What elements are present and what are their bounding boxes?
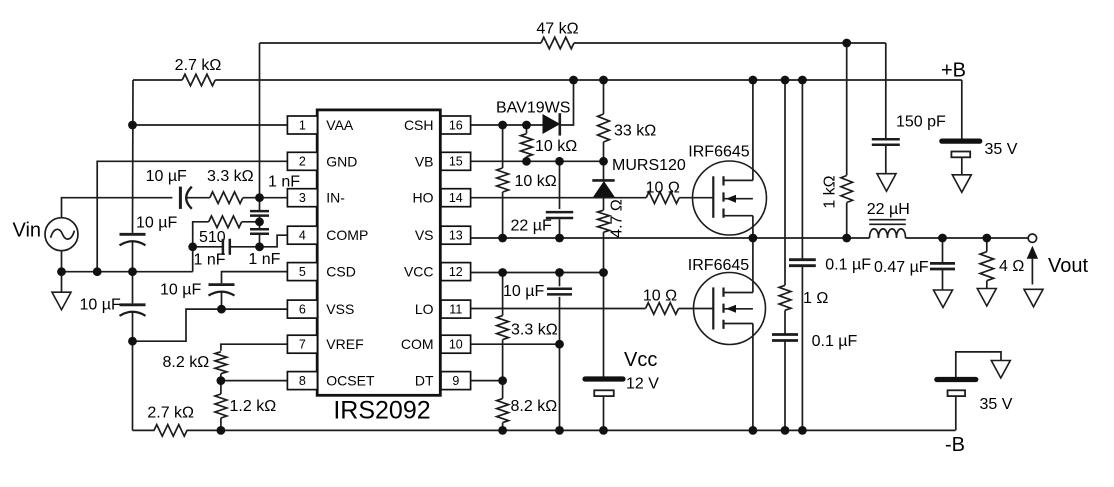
pin 16 CSH xyxy=(441,116,471,134)
svg-text:VCC: VCC xyxy=(404,264,434,280)
junction (61.5,271.7) xyxy=(57,267,66,276)
wire pin7 VREF xyxy=(221,344,288,351)
svg-text:22 µH: 22 µH xyxy=(867,201,910,218)
inductor 22 uH output xyxy=(869,219,906,221)
junction (802.4,80) xyxy=(798,76,807,85)
junction (785,430.4) xyxy=(781,426,790,435)
wire top feedback bus y=43 xyxy=(260,42,542,44)
resistor 3.3 kOhm input xyxy=(210,192,243,204)
Vout arrow xyxy=(1031,255,1033,285)
resistor 10 Ohm HO gate xyxy=(646,192,679,204)
resistor 1 kOhm feedback xyxy=(841,176,853,203)
ground symbol +B battery xyxy=(961,157,963,175)
junction (846.7,43) xyxy=(842,39,851,48)
svg-text:VS: VS xyxy=(415,227,434,243)
wire -B battery to bottom bus xyxy=(955,396,957,430)
wire COMP cap to pin4 xyxy=(230,235,288,247)
svg-text:33 kΩ: 33 kΩ xyxy=(614,123,656,140)
pin 1 VAA xyxy=(287,116,317,134)
wire Vin bottom to gnd bus xyxy=(61,251,63,272)
junction (502.6,125) xyxy=(498,121,507,130)
svg-text:VSS: VSS xyxy=(326,301,354,317)
wire gate resistor to top FET gate xyxy=(679,197,713,199)
wire pin11 LO to gate resistor xyxy=(471,308,646,310)
wire 10k CSH-VB column xyxy=(526,125,528,134)
junction (259.5,221.8) xyxy=(255,217,264,226)
svg-text:9: 9 xyxy=(452,374,459,388)
resistor 47 kOhm feedback xyxy=(541,37,574,49)
svg-text:4: 4 xyxy=(299,229,306,243)
junction (97.2,271.7) xyxy=(93,267,102,276)
svg-text:10 Ω: 10 Ω xyxy=(646,179,680,196)
resistor 510 Ohm xyxy=(242,221,260,223)
svg-text:HO: HO xyxy=(413,190,434,206)
transistor Q1 IRF6645 high side xyxy=(693,161,767,235)
pin 8 OCSET xyxy=(287,372,317,390)
svg-text:2: 2 xyxy=(299,155,306,169)
svg-text:10 Ω: 10 Ω xyxy=(643,288,677,305)
ground symbol 4 Ohm xyxy=(986,281,988,289)
svg-text:CSD: CSD xyxy=(326,264,356,280)
junction (559.5,430.4) xyxy=(555,426,564,435)
junction (559.5,161.3) xyxy=(555,157,564,166)
wire xyxy=(259,198,261,211)
wire bottom bus -B xyxy=(133,429,155,431)
junction (502.6,380.6) xyxy=(498,376,507,385)
wire snubber column 1 Ohm + 0.1 uF xyxy=(784,80,786,285)
junction (559.5,272.5) xyxy=(555,268,564,277)
wire +B rail y=80 left segment (VAA) xyxy=(133,79,182,81)
wire Q1 drain to +B rail xyxy=(752,80,754,180)
wire diode anode to 4.7 Ohm xyxy=(603,197,605,210)
svg-text:7: 7 xyxy=(299,338,306,352)
junction (220.9,430.4) xyxy=(217,426,226,435)
wire VAA cap to gnd bus xyxy=(132,241,134,270)
wire +B rail y=80 xyxy=(215,79,962,81)
svg-text:3.3 kΩ: 3.3 kΩ xyxy=(207,168,254,185)
capacitor 10 uF VAA decoupling xyxy=(120,233,146,236)
svg-text:COMP: COMP xyxy=(326,227,368,243)
svg-text:10 kΩ: 10 kΩ xyxy=(535,138,577,155)
svg-text:11: 11 xyxy=(449,303,462,317)
wire Q2 drain to SW node xyxy=(752,238,754,293)
junction (802.4,430.4) xyxy=(798,426,807,435)
svg-text:1 nF: 1 nF xyxy=(194,252,226,269)
svg-text:CSH: CSH xyxy=(404,117,434,133)
svg-text:12 V: 12 V xyxy=(626,376,659,393)
svg-text:VAA: VAA xyxy=(326,117,354,133)
wire battery to bottom bus xyxy=(603,396,605,430)
junction (603.5,430.4) xyxy=(599,426,608,435)
capacitor 0.1 uF decoupling xyxy=(789,258,816,261)
svg-text:1 kΩ: 1 kΩ xyxy=(822,175,839,208)
pin 11 LO xyxy=(441,300,471,318)
wire gnd-bus to VSS jog xyxy=(132,273,134,303)
junction (220.9,380.6) xyxy=(217,376,226,385)
junction (785,80) xyxy=(781,76,790,85)
wire gnd bus up to COMP node xyxy=(192,247,194,272)
wire 33k column xyxy=(603,80,605,114)
wire Vin top to IN- row xyxy=(62,198,173,218)
svg-text:COM: COM xyxy=(401,336,434,352)
svg-text:4.7 Ω: 4.7 Ω xyxy=(609,199,626,238)
junction (502.6,238) xyxy=(498,234,507,243)
pin 3 IN- xyxy=(287,189,317,207)
svg-text:35 V: 35 V xyxy=(985,141,1018,158)
svg-text:8: 8 xyxy=(299,374,306,388)
svg-text:IRF6645: IRF6645 xyxy=(688,144,749,161)
junction (846.7,238) xyxy=(842,234,851,243)
svg-text:10 µF: 10 µF xyxy=(136,215,177,232)
svg-text:3: 3 xyxy=(299,191,306,205)
svg-text:1.2 kΩ: 1.2 kΩ xyxy=(230,398,277,415)
resistor 33 kOhm xyxy=(598,114,610,142)
resistor 4.7 Ohm bootstrap xyxy=(598,210,610,232)
junction (132.5,271.7) xyxy=(128,267,137,276)
svg-text:-B: -B xyxy=(945,434,965,456)
wire gnd bus xyxy=(62,271,193,273)
pin 9 DT xyxy=(441,372,471,390)
node Vout terminal xyxy=(1028,234,1036,242)
junction (603.5,272.5) xyxy=(599,268,608,277)
wire pin15 VB xyxy=(471,160,604,162)
resistor 1 Ohm snubber xyxy=(779,285,791,310)
svg-text:Vout: Vout xyxy=(1048,255,1088,277)
resistor 10 kOhm CSH to VB xyxy=(521,134,533,157)
svg-text:8.2 kΩ: 8.2 kΩ xyxy=(511,398,558,415)
wire VAA column left x=132.5 xyxy=(132,80,135,233)
svg-text:Vin: Vin xyxy=(13,220,42,242)
svg-text:47 kΩ: 47 kΩ xyxy=(536,21,578,38)
svg-text:IRF6645: IRF6645 xyxy=(688,257,749,274)
op-amp U1 IRS2092 body xyxy=(317,110,440,395)
junction (986.8,238) xyxy=(982,234,991,243)
svg-text:10 µF: 10 µF xyxy=(503,283,544,300)
svg-text:VB: VB xyxy=(415,153,434,169)
wire 3.3k dead-time column xyxy=(502,273,504,316)
capacitor 10 uF VSS decoupling xyxy=(120,303,146,306)
junction (502.6,272.5) xyxy=(498,268,507,277)
ground symbol 150 pF xyxy=(885,145,887,174)
junction (752.9,80) xyxy=(749,76,758,85)
svg-text:10 µF: 10 µF xyxy=(80,297,121,314)
wire Vcc battery column xyxy=(603,273,605,377)
junction (259.5,197.7) xyxy=(255,193,264,202)
battery -B 35 V xyxy=(956,352,1001,377)
svg-text:LO: LO xyxy=(415,301,434,317)
capacitor 10 uF input coupling xyxy=(179,187,182,209)
svg-text:6: 6 xyxy=(299,303,306,317)
capacitor 150 pF feedback xyxy=(872,138,900,141)
svg-text:14: 14 xyxy=(449,191,463,205)
wire pin9 DT xyxy=(471,380,503,382)
junction (603.5,80) xyxy=(599,76,608,85)
wire pin5 CSD xyxy=(222,272,288,284)
resistor 10 Ohm LO gate xyxy=(646,303,679,315)
wire pin6 VSS jog xyxy=(133,309,288,341)
svg-text:IN-: IN- xyxy=(326,190,345,206)
pin 6 VSS xyxy=(287,300,317,318)
wire 10k CSH-VS column xyxy=(502,125,504,168)
junction (259.5,246.8) xyxy=(255,242,264,251)
pin 4 COMP xyxy=(287,226,317,244)
wire pin16 CSH xyxy=(471,124,544,126)
resistor 3.3 kOhm dead-time xyxy=(497,316,509,340)
junction (526.5,125) xyxy=(522,121,531,130)
svg-text:12: 12 xyxy=(449,265,463,279)
wire pin8 OCSET xyxy=(221,380,288,382)
wire 1 kOhm feedback column xyxy=(846,43,848,175)
svg-text:VREF: VREF xyxy=(326,336,363,352)
resistor 2.7 kOhm (VAA from +B) xyxy=(182,74,215,86)
junction (132.5,341.2) xyxy=(128,337,137,346)
resistor 1.2 kOhm OCSET xyxy=(220,381,222,394)
wire pin2 GND to gnd bus xyxy=(97,161,287,271)
wire decoupling column 0.1 uF xyxy=(801,80,803,259)
diode BAV19WS xyxy=(543,115,559,133)
svg-text:150 pF: 150 pF xyxy=(896,114,946,131)
wire gate resistor to bottom FET gate xyxy=(679,308,714,310)
junction (221.5,309.1) xyxy=(217,305,226,314)
capacitor 0.47 uF output filter xyxy=(942,238,944,263)
wire 22uF column VB to VS xyxy=(559,161,561,209)
resistor 8.2 kOhm dead-time xyxy=(502,381,504,399)
capacitor 0.1 uF snubber xyxy=(772,333,798,336)
wire pin1 VAA xyxy=(133,124,288,126)
ground symbol 0.47 uF xyxy=(942,269,944,290)
resistor 10 kOhm CSH to VS xyxy=(497,168,509,192)
svg-text:2.7 kΩ: 2.7 kΩ xyxy=(175,57,222,74)
svg-text:IRS2092: IRS2092 xyxy=(333,397,430,425)
capacitor 1 nF (IN- to comp node) xyxy=(250,210,269,213)
svg-text:0.1 µF: 0.1 µF xyxy=(825,257,871,274)
svg-text:OCSET: OCSET xyxy=(326,373,375,389)
wire pin12 VCC xyxy=(471,272,604,274)
wire output row xyxy=(906,237,1029,239)
wire feedback vertical x=259.5 to IN- xyxy=(259,43,261,198)
svg-text:1 Ω: 1 Ω xyxy=(803,290,828,307)
junction (573.5,80) xyxy=(569,76,578,85)
wire 150 pF column xyxy=(885,43,887,138)
wire cap to 3.3k xyxy=(186,197,210,199)
pin 14 HO xyxy=(441,189,471,207)
node Vin source xyxy=(45,218,78,251)
svg-text:35 V: 35 V xyxy=(980,396,1013,413)
svg-text:0.1 µF: 0.1 µF xyxy=(812,333,858,350)
svg-text:0.47 µF: 0.47 µF xyxy=(874,259,929,276)
capacitor 10 uF VCC decoupling xyxy=(559,273,561,287)
pin 15 VB xyxy=(441,152,471,170)
wire +B to battery xyxy=(961,80,963,139)
junction (559.5,344.2) xyxy=(555,340,564,349)
svg-text:10 kΩ: 10 kΩ xyxy=(515,173,557,190)
wire VSS cap down to bottom bus xyxy=(132,312,134,431)
capacitor 1 nF (mid node to COMP) xyxy=(250,228,269,231)
svg-text:10 µF: 10 µF xyxy=(146,168,187,185)
svg-text:10 µF: 10 µF xyxy=(160,282,201,299)
wire CSD cap to VSS wire xyxy=(221,292,223,310)
capacitor 1 nF COMP horizontal xyxy=(193,246,223,248)
svg-text:5: 5 xyxy=(299,265,306,279)
junction (752.9,430.4) xyxy=(749,426,758,435)
junction (192.7,246.8) xyxy=(188,242,197,251)
wire diode cathode up to +B rail xyxy=(560,80,574,125)
wire 3.3k to pin3 IN- xyxy=(243,197,288,199)
svg-text:2.7 kΩ: 2.7 kΩ xyxy=(147,405,194,422)
ground symbol Vout xyxy=(1024,289,1043,307)
wire pin10 COM xyxy=(471,343,560,345)
pin 13 VS xyxy=(441,226,471,244)
svg-text:DT: DT xyxy=(415,373,434,389)
junction (132.5,125) xyxy=(128,121,137,130)
resistor 2.7 kOhm bottom xyxy=(154,425,187,437)
capacitor 22 uF bootstrap xyxy=(546,211,573,214)
pin 12 VCC xyxy=(441,263,471,281)
battery +B 35 V xyxy=(942,139,980,144)
resistor 8.2 kOhm VREF xyxy=(215,352,227,374)
wire to OCSET xyxy=(220,374,222,381)
capacitor 10 uF CSD xyxy=(209,283,235,286)
wire Q2 source to bottom bus xyxy=(752,324,754,431)
resistor 4 Ohm load xyxy=(986,238,988,252)
svg-text:BAV19WS: BAV19WS xyxy=(496,100,570,117)
wire xyxy=(259,222,261,229)
pin 5 CSD xyxy=(287,263,317,281)
junction (526.5,161.3) xyxy=(522,157,531,166)
transistor Q2 IRF6645 low side xyxy=(694,273,766,345)
svg-text:1 nF: 1 nF xyxy=(248,251,280,268)
junction (502.6,430.4) xyxy=(498,426,507,435)
svg-text:3.3 kΩ: 3.3 kΩ xyxy=(511,322,558,339)
junction (603.5,161.3) xyxy=(599,157,608,166)
svg-text:16: 16 xyxy=(449,118,463,132)
svg-text:Vcc: Vcc xyxy=(624,349,657,371)
ground symbol Vin xyxy=(61,272,63,293)
wire pin13 VS row xyxy=(471,237,870,239)
svg-text:1: 1 xyxy=(299,118,306,132)
svg-text:22 µF: 22 µF xyxy=(511,218,552,235)
svg-text:+B: +B xyxy=(941,60,966,82)
svg-text:15: 15 xyxy=(449,155,463,169)
junction (752.9,238) xyxy=(749,234,758,243)
pin 7 VREF xyxy=(287,335,317,353)
wire Q1 source to SW node xyxy=(752,216,754,238)
pin 10 COM xyxy=(441,335,471,353)
junction (942.5,238) xyxy=(938,234,947,243)
wire pin14 HO to gate resistor xyxy=(471,197,647,199)
diode MURS120 bootstrap xyxy=(603,161,605,180)
junction (559.5,238) xyxy=(555,234,564,243)
svg-text:MURS120: MURS120 xyxy=(612,157,686,174)
ground symbol -B battery xyxy=(991,361,1010,379)
svg-text:13: 13 xyxy=(449,229,463,243)
svg-text:10: 10 xyxy=(449,338,463,352)
svg-text:GND: GND xyxy=(326,153,357,169)
svg-text:4 Ω: 4 Ω xyxy=(999,258,1024,275)
pin 2 GND xyxy=(287,152,317,170)
battery Vcc 12 V xyxy=(585,376,623,381)
svg-text:8.2 kΩ: 8.2 kΩ xyxy=(163,354,210,371)
